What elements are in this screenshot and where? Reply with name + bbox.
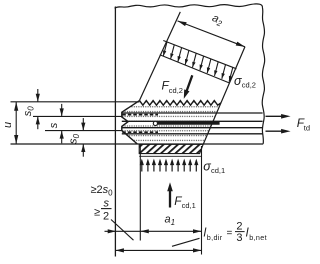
- bottom face of beam: [11, 143, 264, 145]
- reinforcement bar layer 1 bottom line: [122, 120, 263, 122]
- svg-text:≥: ≥: [94, 207, 100, 219]
- thin line under bearing strip: [139, 155, 201, 157]
- extension line from node bottom-right corner: [201, 146, 203, 255]
- reinforcement bar layer 2 top line: [122, 127, 263, 129]
- leader line from s/2 label: [111, 220, 134, 241]
- strut left edge (extended to torn edge): [140, 12, 181, 101]
- svg-text:b,net: b,net: [249, 233, 267, 242]
- svg-text:s: s: [48, 122, 60, 128]
- hidden bar dashes inside node (layer 1): [122, 114, 158, 116]
- distributed stress arrows sigma_cd1 (upward): [140, 159, 199, 172]
- dimension line a2: [178, 21, 245, 47]
- dimension line s/2 and a1: [105, 230, 202, 232]
- torn top edge of member: [115, 4, 263, 8]
- dimension s0 lower: [82, 118, 84, 131]
- extension line from node bottom-left corner: [139, 145, 141, 241]
- extension line top of node (y1): [11, 101, 140, 103]
- svg-text:σ: σ: [203, 160, 211, 174]
- svg-text:b,dir: b,dir: [207, 233, 223, 242]
- svg-text:σ: σ: [234, 74, 242, 88]
- dimension s: [61, 104, 63, 117]
- svg-text:cd,1: cd,1: [182, 201, 196, 210]
- dimension line l_b,dir: [115, 249, 201, 251]
- svg-text:cd,1: cd,1: [211, 166, 225, 175]
- svg-text:3: 3: [236, 232, 242, 244]
- stress band upper line L1: [163, 41, 236, 69]
- reinforcement bar layer 1 top line: [122, 112, 263, 114]
- node outline: left edge with bar-end chevron: [122, 101, 140, 144]
- svg-text:cd,2: cd,2: [242, 81, 256, 90]
- svg-text:cd,2: cd,2: [169, 86, 183, 95]
- strut right edge (extended to a2 dimension): [203, 47, 245, 144]
- reinforcement bar layer 2 bottom line: [122, 133, 263, 135]
- distributed stress arrows sigma_cd2 band: [163, 42, 233, 82]
- stress band lower line L2: [160, 55, 230, 83]
- force arrow F_cd,1 (upward): [169, 188, 171, 208]
- tie force arrow F_td bar layer 1: [266, 115, 284, 117]
- compression node (stippled region): [122, 101, 221, 144]
- anchored bar (thick) with end mark: [158, 122, 220, 125]
- node outline: sawtooth top edge: [140, 101, 221, 106]
- svg-text:td: td: [304, 124, 310, 133]
- svg-text:s: s: [104, 198, 110, 210]
- dimension s0 upper: [37, 89, 39, 102]
- hidden bar dashes inside node (layer 2): [122, 131, 158, 133]
- svg-text:=: =: [227, 228, 233, 239]
- extension line bar layer 1 (y2): [33, 115, 122, 117]
- svg-text:2: 2: [236, 221, 242, 233]
- dimension u: [15, 102, 17, 144]
- extension line bar layer 2 (y3): [45, 130, 122, 132]
- bar end circle: [153, 121, 157, 125]
- tie force arrow F_td bar layer 2: [266, 130, 284, 132]
- force arrow F_cd,2: [186, 75, 192, 93]
- wall face (support front edge): [114, 7, 116, 257]
- leader line from formula: [172, 238, 200, 246]
- svg-text:2: 2: [103, 211, 109, 223]
- hatched bearing strip under node: [139, 144, 203, 153]
- torn right edge of member: [262, 8, 265, 144]
- svg-text:u: u: [2, 122, 14, 128]
